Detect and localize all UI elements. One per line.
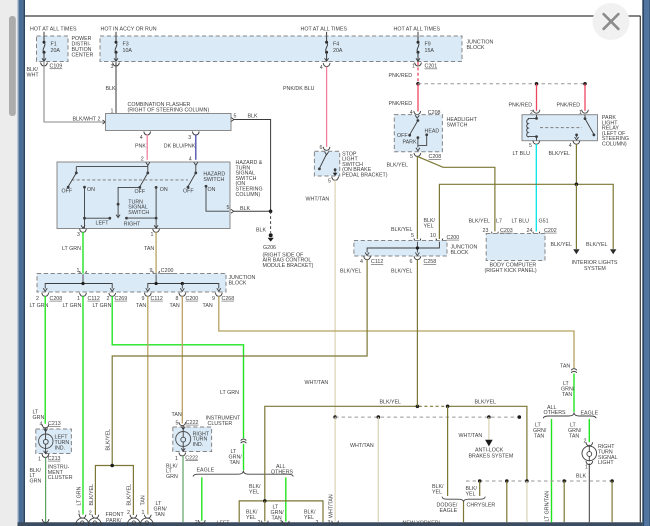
- svg-text:L7: L7: [496, 219, 502, 225]
- fuse F3 10A: [115, 36, 133, 62]
- wire LT GRN/TAN EAGLE branch to left turn signal light: [154, 477, 206, 526]
- wire TAN switch pin1 to junction pin 9: [144, 232, 156, 275]
- BLK/YEL bus to junction pin 10 and interior lights: [439, 183, 613, 250]
- svg-text:IND.: IND.: [193, 442, 204, 448]
- left turn indicator pin 1: [30, 454, 73, 484]
- svg-text:ON: ON: [87, 187, 95, 193]
- svg-text:5: 5: [529, 143, 532, 149]
- svg-text:ON: ON: [160, 187, 168, 193]
- wire BLK/YEL from bus down (middle tap): [563, 481, 565, 522]
- dashed BLK distribution bus: [466, 479, 614, 483]
- scrollbar thumb: [9, 16, 16, 116]
- svg-text:BLK: BLK: [576, 474, 586, 480]
- switch pin 1: [151, 225, 160, 238]
- svg-text:F3: F3: [123, 41, 129, 47]
- svg-text:GRN: GRN: [166, 474, 178, 480]
- right panel edge (blue strip): [642, 0, 644, 526]
- svg-text:LT GRN: LT GRN: [93, 303, 112, 309]
- wire TAN C112 to front park lamp: [140, 296, 148, 514]
- svg-text:BRAKES SYSTEM: BRAKES SYSTEM: [469, 454, 514, 460]
- wire BLK/LT GRN from left turn ind down: [42, 457, 49, 522]
- svg-text:NEW YORKER/: NEW YORKER/: [403, 520, 441, 526]
- svg-text:2: 2: [195, 520, 198, 526]
- interior lights arrows: [551, 242, 618, 272]
- svg-text:YEL: YEL: [304, 515, 314, 521]
- svg-text:YEL: YEL: [424, 223, 434, 229]
- wire WHT/TAN from bus down: [526, 481, 528, 522]
- left panel edge (blue strip): [18, 0, 19, 526]
- fuse F1 20A: [43, 36, 61, 62]
- wire WHT/TAN to anti-lock brakes: [459, 417, 514, 459]
- close button: [593, 3, 630, 40]
- svg-text:WHT/TAN: WHT/TAN: [305, 380, 329, 386]
- svg-text:TAN: TAN: [155, 512, 165, 518]
- wire BLK/YEL from bus down (right tap): [611, 481, 613, 522]
- svg-text:BLK/YEL: BLK/YEL: [391, 268, 413, 274]
- svg-text:SWITCH: SWITCH: [128, 210, 149, 216]
- wire WHT/TAN branch down: [350, 417, 378, 522]
- svg-text:WHT/TAN: WHT/TAN: [350, 443, 374, 449]
- relay switch contact: [575, 115, 596, 140]
- svg-text:C269: C269: [115, 296, 128, 302]
- wire PNK/RED to relay pin 1: [557, 84, 586, 111]
- wire PNK/RED to relay pin 2: [509, 84, 537, 111]
- right turn indicator lamp: [173, 426, 212, 452]
- svg-text:ON: ON: [208, 187, 216, 193]
- svg-text:BLK/YEL: BLK/YEL: [106, 429, 112, 451]
- flasher pin 5 wire BLK to junction with hazard: [231, 114, 271, 212]
- svg-text:EAGLE: EAGLE: [440, 508, 458, 514]
- svg-text:2: 2: [107, 296, 110, 302]
- left throw contact chain: [116, 187, 140, 217]
- flasher pin 4: [140, 132, 151, 142]
- svg-text:LT GRN: LT GRN: [77, 486, 83, 505]
- wire DK BLU/PNK flasher to switch pin 4: [164, 135, 196, 163]
- park light relay: [522, 110, 629, 148]
- headlight switch pin 5: [410, 153, 441, 160]
- svg-text:C222: C222: [186, 420, 199, 426]
- svg-text:YEL: YEL: [466, 491, 476, 497]
- svg-text:PNK/RED: PNK/RED: [389, 101, 413, 107]
- svg-text:TAN: TAN: [230, 460, 240, 466]
- svg-text:C213: C213: [48, 456, 61, 462]
- svg-text:6: 6: [410, 259, 413, 265]
- wire PNK/RED from C201 down to headlight switch: [389, 62, 420, 111]
- svg-text:BLK/YEL: BLK/YEL: [551, 242, 573, 248]
- svg-text:C268: C268: [222, 296, 235, 302]
- svg-text:IND.: IND.: [55, 445, 66, 451]
- wire TAN C200 to right turn indicator: [172, 296, 183, 423]
- merged BLK/YEL wire down: [463, 502, 465, 523]
- svg-text:GRN: GRN: [30, 478, 42, 484]
- front park / turn signal lamps (right pair): [127, 510, 153, 526]
- left turn indicator lamp: [36, 428, 72, 454]
- wire BLK/WHT from F1 to flasher pin 2: [27, 62, 106, 124]
- svg-text:BLK/YEL: BLK/YEL: [380, 400, 402, 406]
- relay linkage dashed: [540, 127, 582, 129]
- junction block (top, fuses): [100, 27, 493, 62]
- svg-text:F4: F4: [333, 41, 339, 47]
- svg-text:3: 3: [188, 135, 191, 141]
- right turn signal light: [582, 444, 617, 470]
- svg-text:EAGLE: EAGLE: [581, 410, 599, 416]
- svg-text:BLK/YEL: BLK/YEL: [387, 163, 409, 169]
- stop light switch pin 5: [328, 177, 339, 185]
- svg-text:RIGHT: RIGHT: [124, 221, 141, 227]
- front park / turn signal lamps (left pair): [76, 510, 125, 526]
- wire BLK/YEL bus (middle bottom): [249, 400, 527, 501]
- svg-text:10A: 10A: [123, 48, 133, 54]
- svg-text:2: 2: [98, 117, 101, 123]
- svg-text:2: 2: [36, 296, 39, 302]
- junction block (right) top pins 5, 10: [411, 233, 459, 242]
- svg-text:C202: C202: [544, 228, 557, 234]
- svg-text:LEFT: LEFT: [217, 521, 231, 526]
- svg-text:C258: C258: [424, 259, 437, 265]
- svg-text:YEL: YEL: [246, 515, 256, 521]
- svg-text:HOT IN ACCY OR RUN: HOT IN ACCY OR RUN: [101, 27, 157, 33]
- svg-text:BLK/YEL: BLK/YEL: [391, 227, 413, 233]
- stop light switch: [314, 151, 387, 178]
- svg-text:OFF: OFF: [183, 188, 194, 194]
- svg-text:1: 1: [151, 232, 154, 238]
- wire BLK/LT GRN from right turn ind down: [182, 456, 184, 523]
- wire BLK from F3 to flasher pin 1: [106, 62, 117, 113]
- wire TAN C268 right to east side: [219, 296, 574, 370]
- svg-text:C208: C208: [429, 154, 442, 160]
- svg-text:BLK: BLK: [256, 228, 266, 234]
- svg-text:WHT: WHT: [27, 73, 40, 79]
- svg-text:PARK/: PARK/: [106, 518, 122, 524]
- svg-text:YEL: YEL: [432, 489, 442, 495]
- svg-text:WHT/TAN: WHT/TAN: [459, 433, 483, 439]
- svg-text:EAGLE: EAGLE: [197, 467, 215, 473]
- svg-text:CLUSTER: CLUSTER: [48, 475, 73, 481]
- turn signal switch contact (middle): [128, 173, 168, 229]
- svg-text:F9: F9: [425, 41, 431, 47]
- svg-text:BLK/YEL: BLK/YEL: [475, 400, 497, 406]
- svg-text:3: 3: [77, 232, 80, 238]
- svg-text:BLK/YEL: BLK/YEL: [340, 268, 362, 274]
- svg-text:PNK/RED: PNK/RED: [389, 73, 413, 79]
- inline connector break on LT GRN/TAN wire (left): [229, 439, 247, 470]
- svg-text:24: 24: [527, 228, 533, 234]
- svg-text:PARK: PARK: [403, 140, 417, 146]
- svg-text:1: 1: [38, 456, 41, 462]
- svg-text:C109: C109: [50, 64, 63, 70]
- svg-text:2: 2: [127, 510, 130, 516]
- svg-text:6: 6: [320, 145, 323, 151]
- scrollbar track: [0, 0, 18, 526]
- fuse F9 15A: [417, 36, 435, 62]
- svg-text:TAN: TAN: [144, 246, 154, 252]
- svg-text:4: 4: [320, 65, 323, 71]
- svg-text:TAN: TAN: [569, 433, 579, 439]
- svg-text:BLK: BLK: [106, 86, 116, 92]
- svg-text:BLK/YEL: BLK/YEL: [127, 484, 133, 506]
- wire BLK/YEL headlight pin5 down to junction pin 5: [387, 156, 436, 239]
- svg-text:OTHERS: OTHERS: [544, 410, 567, 416]
- svg-text:3: 3: [111, 64, 114, 70]
- svg-text:BLK: BLK: [248, 114, 258, 120]
- pin 1 of F9, connector C201: [412, 58, 437, 69]
- hazard switch contact (right): [183, 165, 229, 211]
- right turn indicator pin 1: [166, 452, 198, 480]
- svg-text:CLUSTER: CLUSTER: [208, 421, 233, 427]
- wire BLK from right turn signal light down: [576, 464, 589, 523]
- svg-text:LT GRN: LT GRN: [62, 246, 81, 252]
- svg-text:G51: G51: [539, 219, 549, 225]
- svg-text:SWITCH: SWITCH: [203, 177, 224, 183]
- svg-text:COLUMN): COLUMN): [602, 142, 627, 148]
- right turn indicator pin 5: [176, 415, 241, 427]
- switch internal feed: [75, 165, 149, 174]
- svg-text:LIGHT: LIGHT: [598, 460, 614, 466]
- svg-text:SYSTEM: SYSTEM: [584, 266, 606, 272]
- wire LT GRN/TAN ALL OTHERS branch (right): [533, 419, 552, 522]
- svg-text:5: 5: [227, 205, 230, 211]
- svg-text:DK BLU/PNK: DK BLU/PNK: [164, 143, 196, 149]
- svg-text:4: 4: [360, 259, 363, 265]
- svg-text:20A: 20A: [51, 48, 61, 54]
- svg-text:BLK/YEL: BLK/YEL: [586, 242, 608, 248]
- svg-text:C200: C200: [186, 296, 199, 302]
- svg-text:F1: F1: [51, 41, 57, 47]
- wire LT GRN switch pin3 to junction pin 1: [62, 232, 83, 275]
- svg-text:LT BLU: LT BLU: [513, 151, 531, 157]
- svg-text:LT GRN: LT GRN: [63, 303, 82, 309]
- svg-text:TAN: TAN: [170, 303, 180, 309]
- variant fork braces ALL OTHERS / EAGLE (right): [543, 405, 598, 418]
- svg-text:15A: 15A: [425, 48, 435, 54]
- svg-text:PEDAL BRACKET): PEDAL BRACKET): [342, 173, 388, 179]
- ground G206: [263, 233, 314, 269]
- svg-text:2: 2: [316, 520, 319, 526]
- svg-text:9: 9: [212, 296, 215, 302]
- svg-text:G206: G206: [263, 245, 276, 251]
- svg-text:4: 4: [140, 135, 143, 141]
- fuse F4 20A: [325, 36, 343, 62]
- svg-text:HOT AT ALL TIMES: HOT AT ALL TIMES: [301, 27, 348, 33]
- hazard and turn signal switch box: [57, 160, 263, 229]
- svg-text:LT GRN: LT GRN: [220, 390, 239, 396]
- hazard pin 5 exit wire BLK: [227, 205, 273, 213]
- junction block (left lower): [37, 274, 255, 293]
- dashed WHT/TAN distribution bus: [335, 415, 521, 419]
- wire LT GRN/TAN EAGLE branch to right turn signal light: [568, 419, 593, 446]
- svg-text:3: 3: [280, 520, 283, 526]
- svg-text:2: 2: [258, 520, 261, 526]
- svg-text:BLK/YEL: BLK/YEL: [549, 151, 571, 157]
- svg-text:C112: C112: [371, 259, 383, 265]
- svg-text:C112: C112: [151, 296, 163, 302]
- svg-text:BLOCK: BLOCK: [467, 45, 485, 51]
- pin 4 of F4: [320, 58, 330, 71]
- junction block bottom connectors row: [30, 293, 235, 309]
- svg-text:BLK/YEL: BLK/YEL: [469, 219, 491, 225]
- wire BLK/YEL from bus down (left tap): [506, 481, 508, 522]
- svg-text:(RIGHT OF STEERING COLUMN): (RIGHT OF STEERING COLUMN): [128, 107, 210, 113]
- svg-text:TAN: TAN: [534, 433, 544, 439]
- svg-text:OTHERS: OTHERS: [271, 469, 294, 475]
- right throw contact bar: [124, 217, 156, 228]
- svg-text:LT GRN/TAN: LT GRN/TAN: [545, 491, 551, 522]
- svg-text:9: 9: [142, 296, 145, 302]
- svg-text:PNK/DK BLU: PNK/DK BLU: [283, 86, 315, 92]
- wire LT BLU relay pin 5 to body computer pin 24: [512, 144, 549, 231]
- svg-text:4: 4: [569, 143, 572, 149]
- svg-text:TAN: TAN: [560, 364, 570, 370]
- svg-text:(RIGHT KICK PANEL): (RIGHT KICK PANEL): [485, 268, 537, 274]
- svg-text:1: 1: [585, 464, 588, 470]
- svg-text:C112: C112: [88, 296, 100, 302]
- wire BLK/YEL junction pin4 left to front park lamps: [106, 260, 367, 466]
- hazard flasher contact (left): [62, 173, 112, 229]
- body computer box: [485, 234, 546, 275]
- switch pin 3: [77, 225, 86, 238]
- svg-text:LEFT: LEFT: [96, 221, 110, 227]
- svg-text:20A: 20A: [333, 48, 343, 54]
- wire LT GRN C269 right then down: [112, 296, 243, 438]
- relay pin 4: [569, 141, 580, 149]
- wire BLK/YEL relay pin 4 down: [549, 144, 577, 184]
- svg-text:OFF: OFF: [397, 133, 408, 139]
- left turn indicator pin 4: [40, 421, 61, 428]
- svg-text:HOT AT ALL TIMES: HOT AT ALL TIMES: [30, 27, 77, 33]
- svg-text:8: 8: [176, 296, 179, 302]
- wire WHT/TAN from stop light switch down: [305, 180, 336, 417]
- variant fork braces EAGLE / ALL OTHERS (left): [193, 464, 294, 476]
- pin 3 of F3: [111, 58, 120, 70]
- svg-text:TAN: TAN: [562, 392, 572, 398]
- svg-text:TAN: TAN: [172, 412, 182, 418]
- flasher pin 3: [188, 132, 199, 142]
- svg-text:C222: C222: [185, 455, 198, 461]
- wire LT GRN C208 to left turn indicator: [33, 296, 46, 424]
- wire PNK flasher to switch pin 2: [135, 135, 147, 163]
- wire PNK/DK BLU from F4 to stop light switch: [283, 67, 327, 147]
- svg-text:5: 5: [234, 114, 237, 120]
- wire LT GRN/TAN ALL OTHERS branch: [271, 477, 290, 526]
- front park lamp feed bar (middle pair): [239, 499, 323, 526]
- svg-text:COLUMN): COLUMN): [236, 192, 261, 198]
- power distribution center box: [30, 27, 93, 62]
- frame top line: [25, 15, 641, 17]
- svg-text:BLOCK: BLOCK: [451, 250, 469, 256]
- svg-text:YEL: YEL: [249, 489, 259, 495]
- frame right line: [639, 16, 641, 522]
- svg-text:PNK: PNK: [135, 143, 146, 149]
- bottom panel bar: [18, 522, 643, 526]
- svg-text:OFF: OFF: [135, 189, 146, 195]
- wire BLK/YEL headlight pin5 diagonal to body computer pin 23: [418, 157, 502, 232]
- wire BLK dashed to ground: [256, 211, 271, 233]
- svg-text:5: 5: [411, 233, 414, 239]
- svg-text:BLK/YEL: BLK/YEL: [89, 484, 95, 506]
- svg-text:C200: C200: [447, 235, 460, 241]
- front park lamp feed bar (left pair): [89, 464, 133, 515]
- svg-text:MODULE BRACKET): MODULE BRACKET): [263, 263, 314, 269]
- svg-text:HOT AT ALL TIMES: HOT AT ALL TIMES: [394, 27, 441, 33]
- switch pin 2 entry: [146, 162, 150, 165]
- wire BLK/YEL CHRYSLER tap: [466, 481, 480, 497]
- svg-text:C201: C201: [425, 64, 438, 70]
- svg-text:WHT/TAN: WHT/TAN: [329, 494, 335, 518]
- svg-text:GRN: GRN: [33, 415, 45, 421]
- svg-text:3: 3: [328, 520, 331, 526]
- svg-text:5: 5: [328, 178, 331, 184]
- wire WHT/TAN (stop light) bottom section: [328, 415, 339, 526]
- svg-text:OFF: OFF: [62, 188, 73, 194]
- svg-text:5: 5: [176, 420, 179, 426]
- body computer pins 23, 24: [483, 228, 557, 235]
- svg-text:CENTER: CENTER: [72, 53, 94, 59]
- dashed PNK/RED distribution bus: [418, 82, 587, 86]
- relay pin 5: [529, 141, 540, 149]
- svg-text:C213: C213: [48, 421, 61, 427]
- switch linkage dashed: [72, 179, 189, 181]
- svg-text:PNK/RED: PNK/RED: [557, 102, 581, 108]
- svg-text:1: 1: [77, 296, 80, 302]
- relay coil: [527, 115, 538, 141]
- connector C109: [41, 58, 63, 69]
- svg-text:10: 10: [430, 233, 436, 239]
- svg-text:BLK/WHT: BLK/WHT: [73, 117, 97, 123]
- wire LT GRN C112 to front park lamp: [77, 296, 83, 514]
- svg-text:LT BLU: LT BLU: [512, 219, 530, 225]
- svg-text:1: 1: [412, 64, 415, 70]
- inline connector break on TAN wire (right): [561, 369, 577, 412]
- junction block (right): [354, 241, 478, 257]
- switch pin 4 entry: [194, 162, 198, 165]
- headlight switch: [394, 115, 477, 152]
- svg-text:5: 5: [410, 154, 413, 160]
- junction block (right) bottom pins 4, 6: [340, 256, 436, 274]
- stop light switch pin 6: [320, 145, 331, 151]
- svg-text:C208: C208: [50, 296, 63, 302]
- junction block (left lower) top pins 1, 9: [77, 268, 174, 275]
- svg-text:BLOCK: BLOCK: [229, 281, 247, 287]
- svg-text:SWITCH: SWITCH: [447, 122, 468, 128]
- wire BLK/YEL DODGE/EAGLE tap: [432, 406, 448, 496]
- svg-text:CHRYSLER: CHRYSLER: [467, 503, 496, 509]
- svg-text:PNK/RED: PNK/RED: [509, 102, 533, 108]
- wire BLK/YEL junction pin 6 down to bus: [416, 260, 418, 407]
- svg-text:1: 1: [175, 456, 178, 462]
- svg-text:23: 23: [483, 228, 489, 234]
- svg-text:2: 2: [89, 510, 92, 516]
- variant merge braces DODGE/EAGLE / CHRYSLER: [437, 497, 496, 514]
- svg-text:TAN: TAN: [203, 303, 213, 309]
- svg-text:WHT/TAN: WHT/TAN: [306, 196, 330, 202]
- combination flasher: [106, 102, 232, 131]
- headlight switch pin 4: [410, 110, 441, 116]
- svg-text:TAN: TAN: [140, 495, 146, 505]
- svg-text:TAN: TAN: [136, 303, 146, 309]
- svg-text:C203: C203: [500, 228, 513, 234]
